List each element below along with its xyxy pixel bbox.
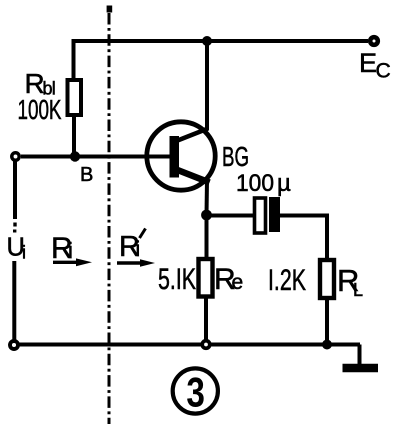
svg-text:e: e [232,271,244,294]
svg-text:3: 3 [186,369,205,416]
svg-text:L: L [353,280,363,300]
svg-text:i: i [68,238,73,263]
svg-text:5.IK: 5.IK [158,263,196,296]
svg-text:µ: µ [277,170,291,197]
svg-text:100: 100 [236,170,274,197]
svg-text:B: B [80,164,93,186]
svg-text:i: i [136,238,141,261]
svg-text:E: E [359,48,377,78]
svg-text:BG: BG [222,141,249,172]
svg-text:I.2K: I.2K [268,264,306,297]
svg-text:C: C [376,60,391,83]
svg-text:i: i [22,243,26,263]
svg-text:100K: 100K [18,94,62,125]
